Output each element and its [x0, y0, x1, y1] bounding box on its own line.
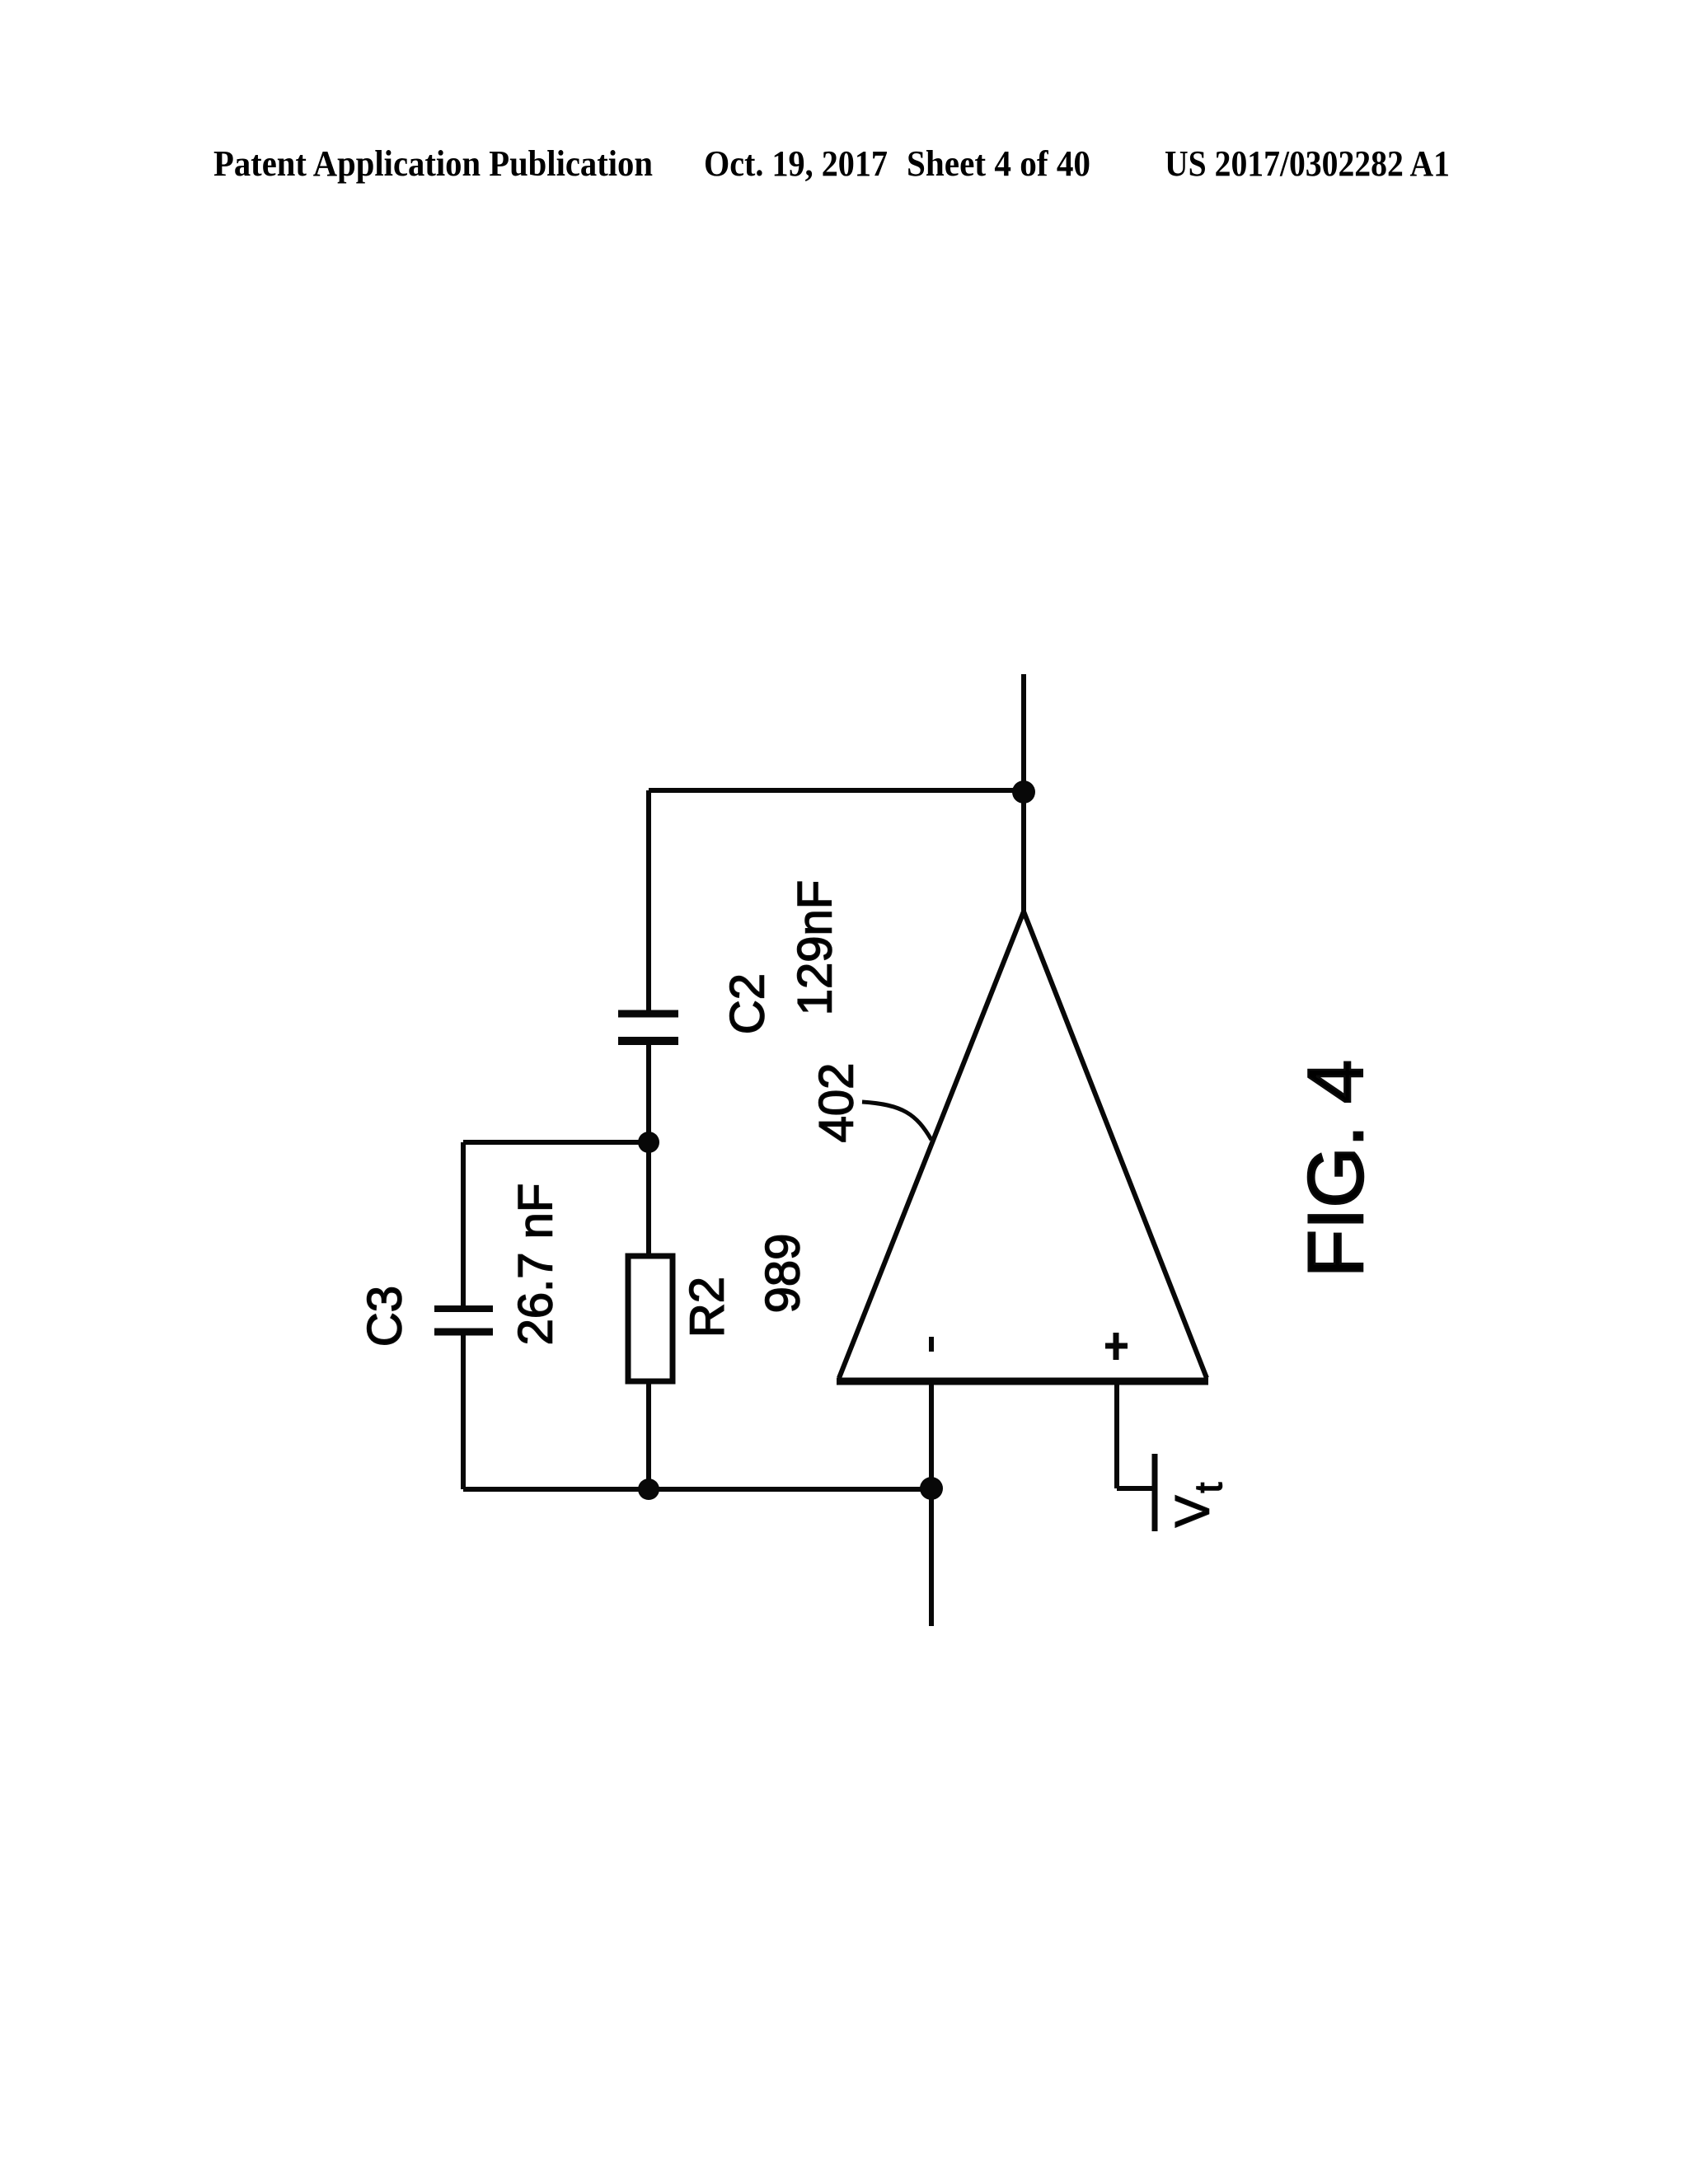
capacitor C3 bottom plate: [434, 1329, 493, 1336]
junction: node A: [638, 1132, 659, 1153]
junction: output node: [1012, 780, 1035, 804]
wire: bottom horizontal to inverting node: [463, 1487, 931, 1492]
svg-text:R2: R2: [681, 1277, 734, 1338]
op-amp non-inverting input plus mark: [1114, 1333, 1119, 1360]
svg-text:Sheet 4 of 40: Sheet 4 of 40: [907, 143, 1090, 184]
capacitor C3 top plate: [434, 1305, 493, 1312]
rotated component labels: [359, 880, 1231, 1527]
leader line for 402: [862, 1102, 931, 1140]
svg-text:Vt: Vt: [1166, 1483, 1231, 1528]
svg-text:C3: C3: [359, 1286, 412, 1347]
Vt source plate: [1152, 1454, 1158, 1531]
wire: non-inverting input vertical: [1114, 1381, 1119, 1488]
wire: C2 to node A: [646, 1045, 651, 1142]
svg-text:Patent Application Publication: Patent Application Publication: [213, 143, 653, 184]
wire: node A to resistor R2: [646, 1142, 651, 1256]
capacitor C2 bottom plate: [618, 1037, 678, 1045]
junction dots: [638, 780, 1035, 1500]
svg-text:989: 989: [757, 1234, 810, 1314]
svg-text:26.7 nF: 26.7 nF: [509, 1183, 563, 1346]
svg-text:402: 402: [810, 1063, 864, 1143]
svg-text:C2: C2: [721, 973, 775, 1034]
wire: non-inverting input horizontal to Vt: [1117, 1486, 1152, 1491]
wire: R2 to bottom node: [646, 1381, 651, 1489]
wire: C3 branch vertical upper: [461, 1142, 466, 1305]
wire: node A horizontal to C3 branch: [463, 1140, 649, 1145]
wire: C3 branch vertical lower: [461, 1335, 466, 1489]
svg-text:US 2017/0302282 A1: US 2017/0302282 A1: [1165, 143, 1450, 184]
capacitor C2 top plate: [618, 1010, 678, 1018]
junction: inverting node: [920, 1477, 943, 1500]
svg-text:129nF: 129nF: [789, 880, 842, 1015]
header: patent publication line: [213, 143, 1450, 184]
wire: op-amp output vertical: [1021, 674, 1026, 915]
op-amp inverting input minus mark: [929, 1337, 934, 1352]
resistor R2 body: [628, 1256, 673, 1381]
op-amp U1 402 triangle: [839, 912, 1207, 1378]
wire: feedback top horizontal: [649, 788, 1024, 793]
wire: inverting input vertical: [929, 1381, 934, 1626]
svg-text:FIG. 4: FIG. 4: [1292, 1060, 1380, 1277]
wire: feedback vertical to C2: [646, 790, 651, 1010]
svg-text:Oct. 19, 2017: Oct. 19, 2017: [704, 143, 888, 184]
junction: bottom node left: [638, 1479, 659, 1500]
